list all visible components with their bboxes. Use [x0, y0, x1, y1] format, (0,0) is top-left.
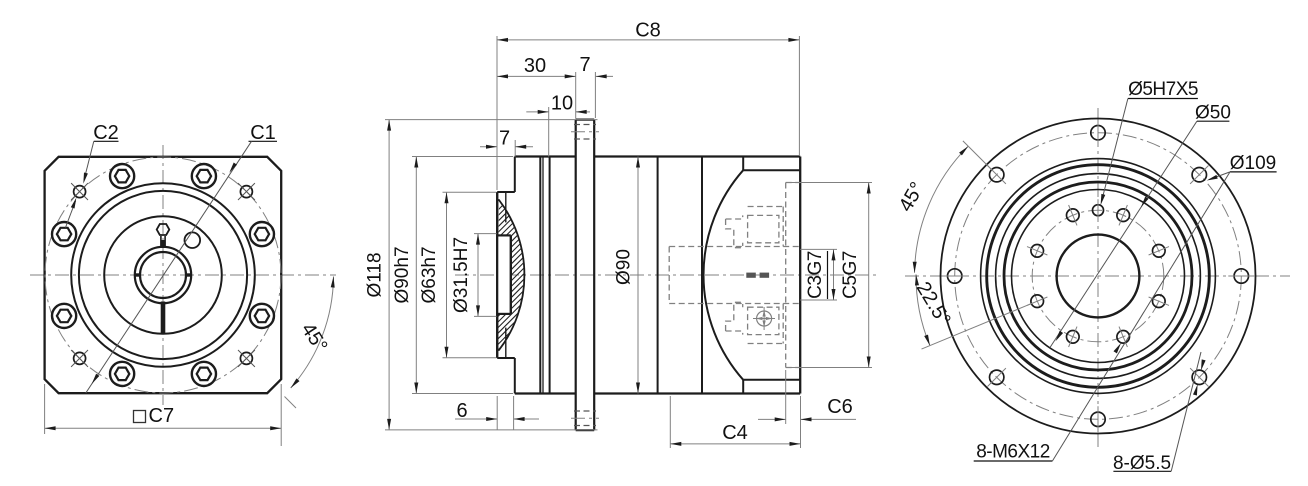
rear view: outer hole 5.5 at 270 deg: [942, 269, 968, 283]
front view: hex socket screw hole at 157.5 deg: [192, 362, 216, 386]
front view: corner extension for 45 deg dim: [285, 397, 297, 409]
svg-text:45°: 45°: [895, 178, 929, 215]
svg-text:6: 6: [456, 400, 467, 422]
side view: horizontal centerline: [455, 274, 876, 276]
dim phi90h7 with extension lines and text: [392, 157, 513, 394]
side view: input end step lines: [743, 157, 800, 394]
rear view: outer hole 5.5 at 180 deg: [1091, 406, 1105, 432]
svg-text:Ø90h7: Ø90h7: [392, 246, 413, 303]
rear view: outer hole 5.5 at 45 deg: [1190, 166, 1208, 184]
dim C5G7 extension lines: [786, 183, 872, 368]
dim C4 line with arrows: [670, 442, 800, 446]
front view: C1 pin hole: [185, 232, 201, 248]
label phi5H7X5 with underline: [1128, 79, 1198, 100]
side view: body front face with steps: [497, 157, 515, 394]
rear view: outer hole 5.5 at 225 deg: [988, 368, 1006, 386]
svg-text:7: 7: [499, 128, 510, 150]
dim C8 extension lines: [497, 36, 799, 190]
rear view: outer hole 5.5 at 135 deg: [1190, 368, 1208, 386]
front view: 45 deg text: [297, 319, 332, 356]
leader phi109: [1207, 172, 1230, 181]
dim 7 lower extension line: [514, 140, 516, 157]
dim 6 text: [456, 400, 467, 422]
side view: hidden input pilot recess: [786, 183, 801, 368]
rear view: inner ring circle 3: [1012, 190, 1185, 363]
dim C3G7 line with arrows: [832, 249, 836, 300]
rear view: 45 deg dimension arc with arrows: [913, 146, 969, 273]
side view: output flange face line: [496, 192, 498, 358]
front view: square-C7 dimension text: [134, 405, 175, 427]
front view: hex socket screw hole at 292.5 deg: [52, 222, 76, 246]
rear view: M6 tapped hole at 67.5 deg: [1149, 245, 1169, 258]
rear view: outer hole 5.5 at 90 deg: [1228, 269, 1254, 283]
side view: body top edge: [515, 155, 800, 157]
dim 6 extension lines: [497, 396, 513, 430]
front view: horizontal centerline: [30, 274, 336, 276]
rear view: center bore circle: [1057, 235, 1140, 318]
dim phi90 inside body: [614, 157, 641, 394]
label phi109 with underline: [1230, 153, 1277, 174]
dim phi118 with extension lines and text: [365, 120, 598, 430]
front view: output flange circle: [104, 216, 222, 334]
rear view: outer hole 5.5 at 0 deg: [1091, 120, 1105, 146]
dim phi63h7 with extension lines and text: [419, 192, 497, 358]
front view: leader C2 upper arrow: [83, 141, 94, 183]
svg-text:8-M6X12: 8-M6X12: [976, 442, 1050, 463]
dim 7 lower line with outside arrows: [480, 145, 533, 149]
rear view: 45 deg radial extension line: [963, 141, 992, 170]
rear view: M6 tapped hole at 247.5 deg: [1027, 295, 1047, 308]
dim C4 text: [722, 422, 748, 444]
side view: output bore rectangle (31.5H7): [497, 235, 511, 314]
svg-text:C4: C4: [722, 422, 748, 444]
side view: flange face over bore: [496, 192, 498, 358]
dim 10 text: [551, 93, 573, 115]
rear view: M6 tapped hole at 112.5 deg: [1149, 295, 1169, 308]
svg-text:Ø50: Ø50: [1195, 103, 1231, 124]
rear view: dowel hole 5H7 at top: [1093, 199, 1104, 221]
dim 30 text: [524, 55, 546, 77]
front view: hex socket screw hole at 22.5 deg: [192, 164, 216, 188]
label 8-M6X12 with underline: [974, 442, 1053, 463]
side view: clamp slot center dashes: [746, 273, 769, 278]
dim C4 extension lines: [670, 396, 800, 448]
leader phi5H7X5: [1101, 99, 1128, 206]
rear view: bolt circle phi109 (dash-dot): [955, 133, 1242, 420]
side view: hidden input bore lines: [669, 247, 800, 304]
front view: C7 dimension extension lines: [45, 384, 282, 446]
front view: bore tick marks 3 and 9 o'clock: [134, 273, 192, 276]
front view: diagonal leader line C1: [86, 141, 252, 393]
rear view: M6 tapped hole at 202.5 deg: [1067, 327, 1080, 347]
front view: shaft ring circle: [135, 247, 191, 303]
front view: vertical centerline: [162, 145, 164, 405]
dim 7 lower text: [499, 128, 510, 150]
svg-text:30: 30: [524, 55, 546, 77]
side view: hidden flange bolt hole bottom: [571, 411, 599, 426]
rear view: 22.5 deg radial extension line: [922, 303, 1034, 349]
label 8-phi5.5 with underline: [1113, 453, 1171, 474]
dim C8 line with arrows: [497, 38, 799, 42]
svg-text:Ø5H7X5: Ø5H7X5: [1128, 79, 1198, 100]
side view: body section seam lines: [540, 157, 549, 394]
front view: corner mounting hole C2 at 225 deg: [71, 350, 88, 367]
rear view: M6 tapped hole at 337.5 deg: [1067, 205, 1080, 225]
svg-text:C3G7: C3G7: [805, 251, 826, 299]
dim C6 extension line: [785, 370, 787, 424]
front view: hex socket screw hole at 67.5 deg: [250, 222, 274, 246]
side view: hidden clamp collar bottom: [726, 302, 784, 343]
svg-text:C7: C7: [149, 405, 175, 427]
dim 30 line with arrows: [497, 74, 576, 78]
rear view: M6 tapped hole at 292.5 deg: [1027, 245, 1047, 258]
side view: hidden flange bolt hole top: [571, 125, 599, 140]
side view: input bell arc: [704, 170, 744, 380]
front view: bolt circle (dash-dot): [45, 157, 281, 393]
side view: hidden clamp collar top: [726, 207, 784, 248]
side view: body bottom edge: [515, 392, 800, 394]
leader 8-M6X12 long diagonal: [1052, 172, 1230, 461]
front view: 45 deg dimension arc: [291, 277, 335, 389]
side view: position target symbol: [753, 307, 775, 330]
front view: keyway slot at 6 o'clock: [161, 302, 166, 335]
dim C3G7 extension lines: [800, 249, 837, 300]
leader 8-phi5.5 with opposing arrows: [1171, 352, 1205, 471]
front view: hex socket screw hole at 112.5 deg: [250, 304, 274, 328]
front view: corner mounting hole C2 at 135 deg: [238, 350, 255, 367]
front view: small hex feature at 12 o'clock with stem: [157, 224, 170, 248]
dim 7 top text: [579, 54, 590, 76]
dim 10 line with arrows: [526, 110, 590, 114]
rear view: vertical centerline: [1097, 108, 1099, 448]
rear view: M6 tapped hole at 157.5 deg: [1117, 327, 1130, 347]
front view: pilot boss circle outer: [71, 183, 255, 367]
dim 30 and 7 extension lines: [576, 72, 596, 119]
dim 6 line with outside arrows: [455, 417, 539, 421]
front view: corner mounting hole C2 at 45 deg: [238, 183, 255, 200]
dim C6 line with outside arrows: [758, 417, 856, 421]
front view: corner mounting hole C2 at 315 deg: [71, 183, 88, 200]
svg-text:10: 10: [551, 93, 573, 115]
side view: adapter joint line: [701, 157, 703, 394]
front view: leader C2 lower arrow: [66, 198, 77, 228]
dim 10 extension line: [548, 107, 550, 157]
dim C5G7 line with arrows: [867, 183, 871, 368]
front view: hex socket screw hole at 337.5 deg: [110, 164, 134, 188]
dim phi31.5H7 with extension lines and text: [451, 234, 497, 317]
front view: hex socket screw hole at 247.5 deg: [52, 304, 76, 328]
svg-text:Ø63h7: Ø63h7: [419, 246, 440, 303]
front view: label C2 with underline: [93, 122, 119, 144]
rear view: outer hole 5.5 at 315 deg: [988, 166, 1006, 184]
label phi50 with underline: [1195, 103, 1231, 124]
rear view: 22.5 deg dimension arc with arrows: [915, 274, 930, 345]
svg-text:Ø31.5H7: Ø31.5H7: [451, 237, 472, 313]
rear view: M6 tapped hole at 22.5 deg: [1117, 205, 1130, 225]
leader phi50 long diagonal: [1050, 121, 1197, 347]
svg-text:Ø118: Ø118: [365, 252, 386, 297]
front view: label C1 with underline: [249, 122, 278, 144]
svg-text:Ø90: Ø90: [614, 249, 635, 285]
dim C6 text: [827, 396, 853, 418]
rear view: outer flange circle: [941, 119, 1256, 434]
rear view: flange spigot circle: [981, 159, 1216, 394]
front view: shaft bore circle: [140, 252, 186, 298]
front view: square flange plate with chamfered corners: [45, 157, 282, 393]
front view: C7 dimension line with arrows: [45, 426, 282, 430]
front view: pilot boss circle inner: [79, 191, 247, 359]
dim C3G7 text with underline: [805, 251, 828, 299]
rear view: horizontal centerline: [905, 275, 1290, 277]
rear view: bolt circle phi50 (dash-dot): [1032, 210, 1164, 342]
rear view: 45 deg text: [895, 178, 929, 215]
dim C8 text: [635, 20, 661, 42]
side view: hub step grooves: [505, 193, 507, 357]
rear view: body circle (thick): [987, 165, 1210, 388]
rear view: inner ring circle 2 (thick): [1004, 182, 1192, 370]
svg-text:C6: C6: [827, 396, 853, 418]
svg-text:C8: C8: [635, 20, 661, 42]
side view: gear housing joint line: [657, 157, 659, 394]
front view: hex socket screw hole at 202.5 deg: [110, 362, 134, 386]
dim 7 top line with outside arrow: [596, 74, 613, 78]
dim C5G7 text: [840, 251, 861, 299]
side view: input face (right edge): [799, 157, 801, 394]
rear view: 22.5 deg text: [912, 278, 955, 330]
side view: mounting flange plate: [576, 120, 595, 431]
svg-text:Ø109: Ø109: [1230, 153, 1276, 174]
rear view: inner ring circle 1: [996, 174, 1201, 379]
svg-text:7: 7: [579, 54, 590, 76]
svg-text:C5G7: C5G7: [840, 251, 861, 299]
